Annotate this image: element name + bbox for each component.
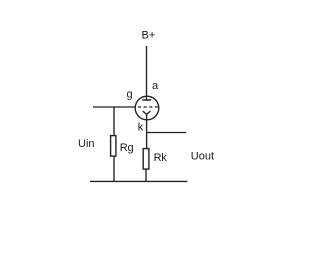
wire grid lead (93, 106, 135, 108)
resistor Rg (111, 136, 116, 157)
svg-text:B+: B+ (142, 30, 156, 42)
wire Rg branch lower (113, 156, 115, 181)
wire output tap (146, 132, 186, 134)
wire ground rail (90, 180, 187, 182)
wire Rg branch upper (113, 106, 115, 135)
svg-text:Uout: Uout (191, 150, 214, 162)
grid (dashed) of V1 (138, 106, 158, 108)
svg-text:g: g (127, 89, 133, 101)
resistor Rk (143, 149, 149, 170)
svg-text:a: a (152, 80, 159, 92)
cathode of V1 (143, 111, 151, 114)
wire cathode stem (146, 114, 148, 149)
wire Rk lower (145, 169, 147, 181)
wire anode lead from B+ (146, 46, 148, 100)
triode V1 envelope (135, 96, 159, 120)
svg-text:Rk: Rk (154, 152, 168, 164)
anode plate of V1 (142, 99, 151, 101)
svg-text:Uin: Uin (78, 138, 95, 150)
svg-text:Rg: Rg (120, 142, 134, 154)
svg-text:k: k (138, 122, 144, 134)
